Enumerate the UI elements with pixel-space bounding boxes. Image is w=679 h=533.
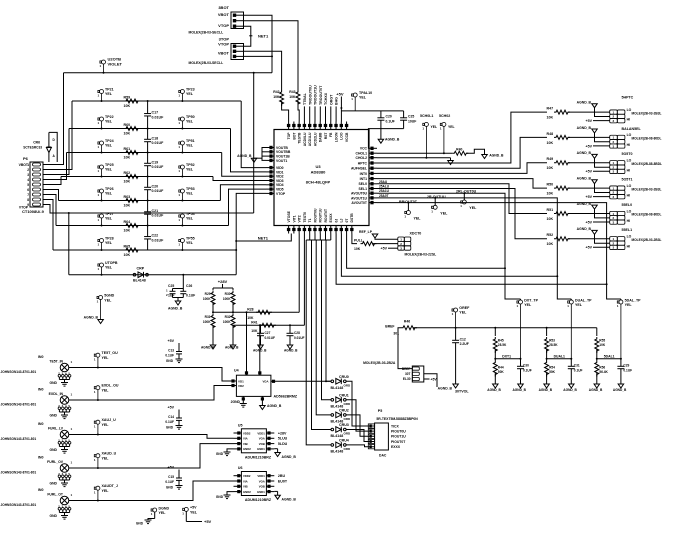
wire cap C28 gnd lead — [289, 336, 291, 345]
wire U6 pin4 gnd — [227, 492, 234, 495]
svg-text:+5V: +5V — [586, 119, 593, 123]
ground AGND_B C31 — [569, 384, 575, 388]
ground AGND_B R56 — [594, 384, 600, 388]
test point TP20 VIOLET — [100, 60, 106, 73]
wire R31 to gnd — [212, 326, 214, 346]
svg-text:YEL: YEL — [186, 217, 194, 221]
wire U3 pin to row 5O5T1 — [377, 179, 547, 189]
U5 right pin 5 number — [267, 431, 270, 434]
svg-text:TP25: TP25 — [105, 163, 114, 167]
ground GND TE5T_IN — [61, 383, 68, 387]
wire lower rail to VCC — [368, 129, 403, 149]
svg-text:VTOP: VTOP — [276, 192, 286, 196]
wire R56 to gnd — [596, 373, 598, 385]
svg-text:2GND: 2GND — [231, 400, 241, 404]
svg-text:AGND_B: AGND_B — [513, 388, 527, 392]
wire cap C22 bottom lead — [147, 239, 149, 250]
connector 5O5T1 pin box r2c1 — [617, 195, 625, 199]
TE5T_IN shield pin 4 — [65, 375, 68, 378]
wire U6 GND1 to AGND — [274, 490, 277, 492]
connector J1 pin 3 stub — [236, 25, 244, 27]
connector J1 pin 3 — [233, 25, 236, 28]
U3 top pin LOO stub — [340, 122, 342, 130]
TE5T_IN shield lead 5 — [69, 377, 71, 379]
resistor R61 — [124, 151, 140, 155]
ground GND C14 — [176, 426, 183, 430]
wire C26 bottom lead — [182, 294, 184, 298]
svg-text:BL4148: BL4148 — [331, 434, 344, 438]
U3 bottom pin 0T stub — [346, 226, 348, 234]
wire diode CRU4 vertical — [306, 240, 331, 445]
svg-text:ADUM1210BRZ: ADUM1210BRZ — [245, 498, 272, 502]
svg-text:PIOUT1U: PIOUT1U — [391, 435, 406, 439]
svg-text:R29: R29 — [205, 292, 211, 296]
svg-text:0.1UF: 0.1UF — [574, 368, 583, 372]
wire U3 bottom pin to diode CRU3 — [325, 234, 327, 241]
svg-text:ORD: ORD — [344, 417, 352, 421]
U3 left pin VID5 stub — [266, 188, 274, 190]
svg-text:FURL_OV: FURL_OV — [47, 460, 64, 464]
connector 5O5T1 pin box r2c0 — [610, 195, 618, 199]
svg-text:CR6: CR6 — [33, 141, 40, 145]
svg-text:EXXX: EXXX — [391, 445, 401, 449]
junction EXDL_OU — [97, 399, 99, 401]
svg-text:AGND_B: AGND_B — [282, 498, 297, 502]
ground REF_LP triangle — [372, 234, 378, 238]
svg-text:YEL: YEL — [440, 211, 448, 215]
junction XAUDT_J — [97, 500, 99, 502]
resistor R29 — [211, 291, 215, 307]
ground AGND_B U6 — [275, 495, 281, 499]
svg-text:CRU0: CRU0 — [339, 375, 349, 379]
svg-text:CRU1: CRU1 — [339, 393, 349, 397]
U3 right pin AVOUT0U stub — [369, 192, 377, 194]
U3 left pin VID4 stub — [266, 184, 274, 186]
test point 5DAL_TP — [617, 300, 623, 359]
U3 right pin CHOL1 number — [370, 152, 373, 155]
svg-text:2R-OUTUU: 2R-OUTUU — [427, 195, 446, 199]
U3 top pin FB stub — [330, 122, 332, 130]
connector P6 pin 3 — [33, 173, 41, 176]
svg-text:C29: C29 — [623, 364, 629, 368]
svg-text:AGND_B: AGND_B — [489, 154, 504, 158]
U6 left pin 2 number — [237, 479, 240, 482]
wire ladder row 6 — [56, 225, 229, 227]
wire P6 pin1 VBOT riser — [43, 73, 64, 165]
svg-text:TROOUT1U: TROOUT1U — [314, 85, 318, 105]
capacitor C12 — [452, 340, 459, 342]
svg-text:OREF: OREF — [459, 306, 470, 310]
svg-text:GND: GND — [49, 448, 57, 452]
svg-text:DABB: DABB — [319, 132, 323, 142]
svg-text:TE5T_IN: TE5T_IN — [49, 360, 63, 364]
svg-text:YEL: YEL — [524, 303, 532, 307]
svg-text:VBOT: VBOT — [218, 50, 230, 55]
wire R28 right to U3 riser — [298, 311, 299, 313]
svg-text:56.4K: 56.4K — [599, 370, 608, 374]
connector 5O5T1 pin box r1c1 — [617, 190, 625, 194]
wire cap C21 top lead — [147, 201, 149, 212]
svg-text:YEL: YEL — [105, 217, 113, 221]
U3 bottom pin TEST0 number — [303, 228, 306, 231]
wire cap C20 bottom lead — [147, 190, 149, 201]
connector 5O5T0 pin box r2c1 — [617, 169, 625, 173]
junction TP51 — [181, 152, 183, 154]
diode CRU1 — [331, 397, 346, 403]
wire cap C21 bottom lead — [147, 214, 149, 225]
svg-text:AGND_B: AGND_B — [577, 126, 592, 130]
U3 left pin VOUT1 number — [269, 159, 272, 162]
connector 5O5T0 pin box r0c0 — [610, 161, 618, 165]
resistor R30 — [231, 291, 235, 307]
resistor R46 BREF — [401, 326, 417, 330]
connector P6 pin 5 — [33, 183, 41, 186]
FURL_OV shield pin 5 — [68, 475, 71, 478]
svg-text:YEL: YEL — [102, 489, 110, 493]
U3 right pin AVOUT0T number — [370, 201, 373, 204]
FURL_OT shield lead 2 — [58, 510, 60, 512]
svg-text:AGND_B: AGND_B — [563, 388, 577, 392]
wire node 5DAL1 horizontal — [597, 358, 621, 360]
wire trombone row 1 to U3 pin — [241, 101, 266, 168]
svg-text:VD2: VD2 — [238, 384, 244, 388]
svg-text:YEL: YEL — [186, 168, 194, 172]
wire ladder row 3 — [67, 152, 222, 154]
U6 left pin 1 number — [237, 474, 240, 477]
svg-text:0.01UF: 0.01UF — [152, 238, 165, 242]
svg-text:VDD2: VDD2 — [243, 474, 251, 478]
connector TE5T_IN BNC — [60, 363, 69, 372]
test point 2R-OUTUU — [431, 205, 437, 213]
resistor R55 — [595, 337, 599, 353]
junction x253.7 on VBOT wire — [253, 72, 255, 74]
U3 left pin VOUTBB stub — [266, 151, 274, 153]
wire R40 staple to AGND — [466, 149, 484, 154]
junction TP29 stem — [101, 274, 103, 276]
svg-text:3: 3 — [27, 173, 29, 177]
svg-text:+5V: +5V — [168, 466, 175, 470]
wire R47 to connector — [568, 111, 610, 113]
svg-text:VTOSE: VTOSE — [287, 210, 291, 222]
ground GND U5 — [224, 452, 231, 456]
wire U3 pin to R28 — [298, 234, 300, 313]
wire diode CRU3 to P5 pin4 — [346, 430, 375, 442]
U3 bottom pin VTOSE stub — [288, 226, 290, 234]
capacitor C28 — [287, 333, 294, 335]
wire AVOUT net 2 — [377, 203, 621, 299]
svg-text:YEL: YEL — [102, 456, 110, 460]
wire +28V stem — [222, 284, 224, 288]
svg-text:YEL: YEL — [186, 192, 194, 196]
wire C25 top lead — [172, 289, 174, 292]
U3 top pin RST number — [324, 124, 327, 127]
svg-text:JOHNSON143-8701-801: JOHNSON143-8701-801 — [1, 470, 37, 474]
svg-text:5CH02: 5CH02 — [439, 114, 450, 118]
U3 bottom pin EXXX stub — [330, 226, 332, 234]
wire +5V to XDCT0 pin3 — [388, 247, 398, 249]
svg-text:TICX: TICX — [391, 424, 399, 428]
wire riser P6 pin7 to row 6 — [43, 195, 56, 226]
wire diode CRU1 to P5 pin2 — [346, 400, 375, 431]
svg-text:CHOL2: CHOL2 — [356, 156, 368, 160]
FURL_OT shield pin 4 — [65, 508, 68, 511]
svg-text:C30: C30 — [523, 364, 529, 368]
svg-text:AUFHSEL: AUFHSEL — [351, 167, 367, 171]
wire TE5T_IN shield stem — [64, 380, 66, 383]
ground GND FURL_OV — [61, 483, 68, 487]
svg-text:C21: C21 — [152, 209, 159, 213]
wire node B horizontal R41 — [233, 324, 304, 326]
wire BREF pin2 down — [424, 374, 437, 387]
wire REF_LP gnd to pin1 — [375, 238, 398, 239]
svg-text:28.5K: 28.5K — [549, 343, 558, 347]
svg-text:0.01UF: 0.01UF — [152, 165, 165, 169]
svg-text:LJ: LJ — [340, 218, 344, 222]
wire VOUT bundle — [262, 148, 266, 161]
wire diode loop — [48, 153, 50, 163]
U3 bottom pin DSTB number — [350, 228, 353, 231]
wire trombone row 4 to U3 pin — [213, 177, 266, 181]
wire net stub TROOUT1U — [314, 106, 316, 121]
svg-text:YEL: YEL — [102, 356, 110, 360]
wire J2 pin3 to x272 — [244, 55, 273, 57]
svg-text:TP50: TP50 — [186, 115, 195, 119]
svg-text:FB: FB — [329, 132, 333, 137]
svg-text:R43: R43 — [289, 90, 295, 94]
capacitor C30 — [517, 366, 524, 368]
svg-text:25A1U: 25A1U — [379, 189, 390, 193]
wire cap C23 top lead — [380, 111, 382, 118]
wire diode CRU2 vertical — [316, 240, 331, 415]
svg-text:5DAL1: 5DAL1 — [604, 354, 615, 358]
svg-text:+5V: +5V — [586, 144, 593, 148]
wire +5V C14 stem — [178, 410, 180, 419]
svg-text:5R-TEXT5MJ8888Z8BP0N: 5R-TEXT5MJ8888Z8BP0N — [376, 417, 418, 421]
svg-text:25ALU: 25ALU — [379, 185, 390, 189]
U6 left pin 3 number — [237, 485, 240, 488]
svg-text:+5V: +5V — [586, 220, 593, 224]
svg-text:YEL: YEL — [414, 217, 422, 221]
svg-text:HI: HI — [627, 194, 630, 198]
capacitor C29 — [617, 366, 624, 368]
U6 left pin 4 number — [237, 490, 240, 493]
svg-text:U3: U3 — [315, 164, 321, 169]
wire U3 bottom pin to diode CRU1 — [314, 234, 316, 241]
U5 right pin 7 stub — [266, 443, 274, 445]
U3 right pin SEL0 number — [370, 182, 373, 185]
FURL_LV shield lead 2 — [58, 444, 60, 446]
test point XAUDT_J — [94, 486, 100, 500]
svg-text:HI: HI — [627, 168, 630, 172]
wire net stub BHG — [335, 106, 337, 121]
wire C29 top lead — [620, 359, 622, 367]
capacitor C25 — [170, 291, 176, 293]
svg-text:100K: 100K — [203, 297, 211, 301]
U3 left pin VOUTB stub — [266, 147, 274, 149]
capacitor C22 — [144, 237, 151, 239]
wire riser P6 pin4 to row 3 — [43, 153, 67, 180]
wire EXDL_IN shield stem — [64, 412, 66, 415]
wire +5V to pin 5HPTC — [593, 120, 610, 122]
connector 55EL1 pin box r0c0 — [610, 237, 618, 241]
wire C30 to gnd — [520, 369, 522, 384]
U5 left pin 2 stub — [234, 437, 242, 439]
svg-text:SEL1: SEL1 — [359, 187, 368, 191]
wire cap C24 bottom lead — [403, 120, 405, 128]
junction TP27 — [101, 225, 103, 227]
wire U3 pin to R41 — [303, 234, 305, 326]
U3 right pin HPTC number — [370, 161, 373, 164]
svg-text:5LUU: 5LUU — [278, 437, 288, 441]
svg-text:HPTC: HPTC — [358, 161, 368, 165]
connector J2 pin 1 stub — [236, 45, 244, 47]
connector XDCT0 pin box r0c0 — [398, 237, 405, 241]
connector 5HPTC pin box r0c1 — [617, 110, 625, 114]
U3 right pin AUFHSEL stub — [369, 167, 377, 169]
connector XDCT0 pin box r2c1 — [404, 246, 411, 250]
wire R29 to node — [212, 303, 214, 313]
svg-text:0.1UF: 0.1UF — [623, 368, 632, 372]
wire U5 pin4 gnd — [227, 449, 234, 452]
svg-text:GND1: GND1 — [257, 447, 265, 451]
wire R54 top lead — [546, 359, 548, 361]
svg-text:IN0: IN0 — [38, 422, 44, 426]
EXDL_IN shield pin 4 — [65, 407, 68, 410]
connector 5O5T0 pin box r0c1 — [617, 161, 625, 165]
svg-text:MOLEX(2B-03-SECLL: MOLEX(2B-03-SECLL — [189, 31, 224, 35]
wire C31 top lead — [570, 359, 572, 367]
svg-text:R55: R55 — [599, 338, 605, 342]
U3 right pin CHOL2 stub — [369, 157, 377, 159]
U3 bottom pin ROUT1U number — [319, 228, 322, 231]
junction TP22 — [101, 128, 103, 130]
svg-text:+5V: +5V — [168, 339, 175, 343]
U4 left pin1 number — [231, 379, 234, 382]
connector 5O5T0 pin box r1c1 — [617, 165, 625, 169]
svg-text:10K: 10K — [547, 166, 554, 170]
wire cap C27 lead — [260, 325, 262, 333]
svg-text:PIOUT0U: PIOUT0U — [391, 429, 406, 433]
svg-text:DXT1: DXT1 — [502, 354, 511, 358]
ground GND TP19 — [145, 520, 152, 524]
resistor R65 — [124, 248, 140, 252]
connector 55EL0 pin box r0c1 — [617, 211, 625, 215]
connector FURL_OV BNC — [60, 464, 69, 473]
svg-text:0.01UF: 0.01UF — [294, 336, 305, 340]
EXDL_IN shield pin 2 — [58, 407, 61, 410]
svg-text:10K: 10K — [124, 204, 131, 208]
wire +28V bar drop L — [212, 288, 214, 290]
wire 100K top bar — [213, 287, 233, 289]
wire TP 2R-OUTUU stem — [434, 198, 436, 205]
wire U5 GND1 to AGND — [274, 448, 277, 450]
connector BALAN5EL pin box r2c1 — [617, 144, 625, 148]
FURL_OT shield lead 3 — [62, 510, 64, 512]
svg-text:RST: RST — [324, 132, 328, 140]
wire FURL_OV shield stem — [64, 480, 66, 483]
svg-text:AGND_B: AGND_B — [168, 307, 183, 311]
capacitor C24 — [400, 118, 407, 120]
U3 bottom pin VIT2 stub — [298, 226, 300, 234]
wire +5V to U3 pin LOO — [340, 97, 342, 122]
svg-text:JOHNSON143-8701-801: JOHNSON143-8701-801 — [1, 437, 37, 441]
svg-text:PULL: PULL — [354, 239, 363, 243]
svg-text:YEL: YEL — [105, 168, 113, 172]
svg-text:VIA: VIA — [243, 479, 248, 483]
svg-text:TROOUT0U: TROOUT0U — [308, 85, 312, 105]
FURL_LV shield lead 3 — [62, 444, 64, 446]
connector J2 pin 2 stub — [236, 50, 244, 52]
svg-text:GND: GND — [216, 495, 224, 499]
svg-text:XAUDT_J: XAUDT_J — [102, 484, 118, 488]
test point 5CH02 — [440, 122, 446, 153]
test point TP22 — [98, 117, 104, 129]
svg-text:YEL: YEL — [190, 511, 198, 515]
wire R32 to gnd — [232, 326, 234, 346]
junction +5V rail — [340, 107, 342, 109]
wire AGND to mid pin 55EL1 — [595, 234, 610, 243]
wire CHOL2 — [377, 157, 451, 159]
svg-text:AGND_B: AGND_B — [577, 151, 592, 155]
wire R51 to connector — [568, 213, 610, 215]
FURL_OT shield lead 4 — [65, 510, 67, 512]
svg-text:AGND_B: AGND_B — [282, 455, 297, 459]
svg-text:YEL: YEL — [159, 511, 167, 515]
wire C12 gnd lead — [455, 343, 457, 384]
wire node DUAL1 horizontal — [547, 358, 572, 360]
wire U3 bottom pin to diode CRU4 — [330, 234, 332, 241]
svg-text:YEL: YEL — [104, 298, 112, 302]
svg-text:0.1UF: 0.1UF — [165, 354, 174, 358]
wire net stub ORGT — [330, 106, 332, 121]
test point TP28 — [98, 239, 104, 251]
svg-text:2.2UF: 2.2UF — [460, 342, 469, 346]
svg-text:R61: R61 — [124, 147, 131, 151]
junction TP55 — [181, 249, 183, 251]
test point TP24 — [98, 141, 104, 153]
U3 right pin INT0 number — [370, 172, 373, 175]
svg-text:ORD: ORD — [344, 383, 352, 387]
connector J2 (MOLEX-03) body — [231, 44, 244, 60]
wire ladder row 2 — [69, 128, 231, 130]
test point TP54 — [178, 214, 184, 226]
svg-text:CRU4: CRU4 — [339, 439, 349, 443]
svg-text:10K: 10K — [124, 180, 131, 184]
svg-text:R64: R64 — [124, 220, 131, 224]
junction J2 pin3 on x272 — [271, 55, 273, 57]
svg-text:DXT_TP: DXT_TP — [524, 298, 538, 302]
wire AGND to mid pin 5O5T1 — [595, 184, 610, 193]
test point TP55 — [178, 239, 184, 251]
resistor R63 — [124, 199, 140, 203]
wire R44 to XDCT0 pin2 — [372, 243, 398, 245]
U3 right pin AVOUT1U number — [370, 196, 373, 199]
svg-text:JOHNSON143-8701-801: JOHNSON143-8701-801 — [1, 503, 37, 507]
U3 right pin SEL1 stub — [369, 188, 377, 190]
junction cap C19 top — [147, 152, 149, 154]
svg-text:YEL: YEL — [102, 388, 110, 392]
ground 2GND U4 — [240, 404, 247, 408]
svg-text:TE5T_OU: TE5T_OU — [102, 351, 119, 355]
U6 left pin 4 stub — [234, 491, 242, 493]
wire TP18 stem — [185, 511, 187, 521]
svg-text:EL30: EL30 — [403, 377, 411, 381]
U5 left pin 1 number — [237, 431, 240, 434]
connector BALAN5EL pin box r1c1 — [617, 140, 625, 144]
connector 5O5T0 pin box r2c0 — [610, 169, 618, 173]
U3 bottom pin ROUT0T number — [324, 228, 327, 231]
svg-text:C26: C26 — [186, 284, 192, 288]
